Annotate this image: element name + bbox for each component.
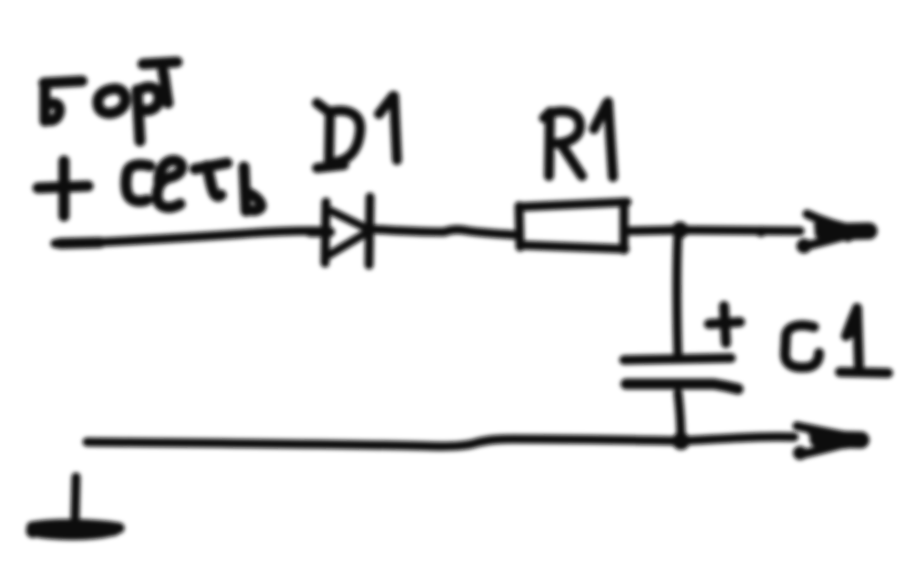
node label "+ сеть" (net name)	[38, 160, 261, 216]
node label "Борт" (net name)	[44, 62, 177, 141]
label + (C1 polarity)	[709, 306, 740, 343]
ground	[26, 477, 119, 538]
arrow (top output)	[797, 214, 878, 254]
arrow (bottom output)	[793, 426, 870, 460]
wire (diode cathode to resistor)	[371, 229, 516, 235]
wire (resistor to top output)	[627, 230, 800, 231]
label C1	[785, 308, 888, 373]
label R1	[544, 102, 613, 177]
wire (input to diode anode)	[55, 231, 322, 244]
diode D1	[310, 197, 370, 265]
node (top junction)	[672, 222, 689, 239]
label D1	[317, 96, 397, 168]
wire (capacitor to bottom junction)	[678, 393, 681, 440]
wire (bottom rail)	[87, 437, 794, 447]
resistor R1	[519, 202, 627, 250]
wire (top junction to capacitor)	[677, 234, 678, 357]
node (bottom junction)	[672, 432, 690, 450]
capacitor C1	[624, 358, 738, 389]
